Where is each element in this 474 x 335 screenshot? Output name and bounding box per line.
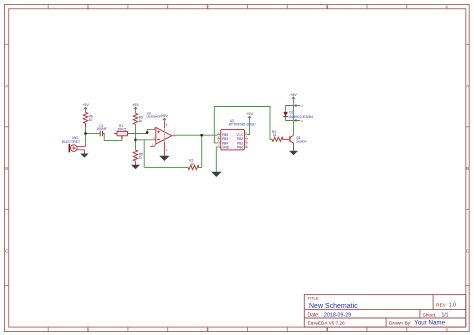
ground (mic)	[80, 154, 88, 158]
wire feedback bottom right	[198, 135, 202, 167]
wire diode loop	[286, 106, 294, 121]
wire feedback bottom left	[144, 166, 188, 168]
svg-text:+5V: +5V	[246, 112, 253, 116]
wire C1 to R1 wiper	[103, 134, 122, 141]
svg-text:1k: 1k	[139, 156, 143, 160]
svg-text:1/1: 1/1	[442, 312, 449, 318]
svg-text:B: B	[466, 166, 469, 171]
svg-text:TITLE:: TITLE:	[308, 296, 320, 301]
junction node divider/pin2	[134, 139, 137, 142]
svg-text:Sheet:: Sheet:	[423, 312, 437, 318]
wire feedback riser	[143, 140, 145, 168]
svg-text:ELECTRET: ELECTRET	[62, 140, 81, 144]
svg-text:B: B	[5, 166, 8, 171]
resistor R6	[83, 112, 93, 127]
wire top loop (PB4 to R4)	[214, 107, 272, 143]
svg-text:Drawn By:: Drawn By:	[389, 320, 412, 326]
resistor R5	[133, 113, 143, 124]
junction node mic	[84, 132, 87, 135]
svg-text:+5V: +5V	[290, 93, 297, 97]
svg-text:1k: 1k	[139, 119, 143, 123]
frame row letters	[5, 83, 469, 253]
power flag +5V (U2 VCC)	[246, 112, 253, 121]
ground (opamp)	[159, 156, 169, 161]
microphone MK1 ELECTRET	[62, 136, 86, 153]
transistor Q1	[290, 135, 307, 143]
resistor R4	[272, 130, 290, 142]
svg-text:+5V: +5V	[161, 114, 168, 118]
wire VCC	[248, 121, 250, 135]
frame ticks sides	[5, 44, 470, 285]
svg-text:Your Name: Your Name	[414, 319, 445, 326]
IC U2 ATTINY85	[217, 119, 256, 150]
svg-text:2018-09-29: 2018-09-29	[324, 312, 351, 318]
svg-text:C: C	[5, 248, 8, 253]
svg-text:1.0: 1.0	[449, 302, 456, 308]
title block	[304, 295, 466, 328]
svg-text:A: A	[5, 83, 8, 88]
svg-text:1k: 1k	[89, 118, 93, 122]
wire diode main vertical	[292, 106, 294, 136]
ground (divider)	[131, 165, 140, 170]
frame ticks top	[48, 5, 407, 9]
power flag +5V (transistor)	[290, 93, 297, 106]
svg-text:EasyEDA V5.7.26: EasyEDA V5.7.26	[308, 320, 346, 325]
resistor R3 (lower divider)	[133, 150, 143, 165]
svg-text:PB0: PB0	[237, 146, 243, 150]
svg-text:2N3904: 2N3904	[296, 139, 307, 143]
svg-text:ATTINY85-20SU: ATTINY85-20SU	[229, 122, 256, 126]
svg-text:C: C	[466, 248, 469, 253]
frame ticks bottom	[48, 327, 407, 331]
svg-text:GND: GND	[222, 146, 230, 150]
op-amp U3	[146, 111, 176, 156]
wire U2 gnd	[216, 147, 217, 172]
ground (Q1)	[289, 151, 298, 156]
diode D1	[283, 110, 314, 119]
svg-text:+5V: +5V	[82, 103, 89, 107]
wire mic node to C1	[86, 133, 101, 135]
wire divider mid	[135, 124, 137, 150]
power flag +5V (mic pull-up)	[82, 103, 89, 112]
wire mic node vertical	[85, 127, 87, 146]
svg-text:A: A	[466, 83, 469, 88]
potentiometer R1	[114, 124, 130, 139]
power flag +5V (opamp)	[161, 114, 168, 122]
svg-text:Date:: Date:	[308, 312, 320, 318]
svg-text:REV: REV	[436, 302, 446, 307]
wire pin2	[136, 139, 152, 141]
resistor R2	[188, 158, 199, 169]
frame column numbers	[87, 4, 449, 332]
junction node at pin3 wire	[146, 131, 149, 134]
ground (U2)	[211, 172, 221, 177]
svg-text:20KΩ: 20KΩ	[117, 128, 126, 132]
svg-text:100NF: 100NF	[96, 127, 107, 131]
capacitor C1	[96, 124, 107, 137]
svg-text:LM358ADR: LM358ADR	[146, 115, 162, 119]
wire R1 to opamp input	[130, 130, 152, 134]
svg-text:+5V: +5V	[132, 103, 139, 107]
diode pin 2	[295, 119, 304, 123]
diode pin 1	[295, 104, 304, 108]
wire opamp output	[176, 134, 217, 136]
svg-text:New Schematic: New Schematic	[309, 303, 358, 310]
title block text	[308, 296, 457, 327]
wire emitter to ground	[293, 143, 295, 151]
power flag +5V (divider)	[132, 103, 139, 113]
junction node output	[200, 134, 203, 137]
